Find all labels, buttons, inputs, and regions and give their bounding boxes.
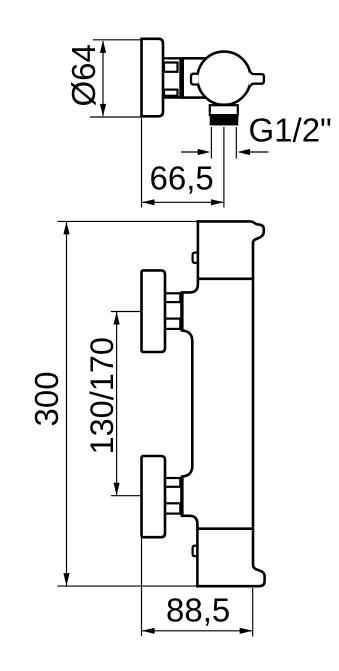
top view: outlet thread G1/2 (black): [210, 115, 239, 125]
dim 300 extension line top: [58, 220, 198, 222]
arrowhead Ø64 bottom: [100, 104, 106, 117]
arrowhead 66,5 right: [211, 199, 224, 205]
arrowhead 130/170 top: [114, 312, 120, 325]
top view: right knob tab: [249, 70, 264, 88]
front view: lower union tab top: [165, 478, 181, 487]
arrowhead 130/170 bottom: [114, 483, 120, 496]
front view: upper union tab top: [165, 293, 181, 302]
dim G1/2 arrow tail left: [181, 151, 200, 153]
dim 88,5 extension line right: [252, 588, 254, 637]
front view: lower union tab bottom: [165, 503, 181, 513]
dim G1/2 extension line right: [235, 127, 237, 159]
arrowhead Ø64 top: [100, 40, 106, 53]
front view: joint line above bottom block: [197, 527, 253, 530]
dim 66,5 line: [142, 201, 223, 203]
svg-text:130/170: 130/170: [84, 337, 120, 454]
front view: lower wall flange: [142, 456, 166, 537]
dim 88,5 line: [142, 630, 252, 632]
arrowhead G1/2 left: [198, 149, 211, 155]
top view: threaded outlet collar (white): [210, 105, 238, 115]
top view: left knob tab: [191, 74, 199, 85]
front view: lower union nut thick edge: [180, 477, 183, 515]
front view: bottom block left nub: [193, 546, 200, 557]
front view: upper wall flange: [142, 270, 166, 352]
arrowhead 88,5 right: [240, 628, 253, 634]
svg-text:300: 300: [28, 371, 65, 426]
dim 130/170 extension line top: [111, 311, 142, 313]
top view: knob circle: [197, 52, 250, 105]
dim 66,5 extension line left (wall plane): [141, 118, 143, 208]
arrowhead 66,5 left: [142, 199, 155, 205]
svg-text:88,5: 88,5: [166, 592, 230, 629]
top view: union nut tab upper: [164, 63, 178, 72]
dim 300 extension line bottom: [58, 585, 243, 587]
dim 66,5 extension line right (outlet centerline): [223, 127, 225, 208]
dim 88,5 extension line left: [141, 538, 143, 637]
arrowhead 300 bottom: [63, 573, 69, 586]
dim Ø64 line: [102, 41, 104, 116]
front view: joint line below top block: [198, 277, 253, 280]
front view: mixer body outline (top block, bar, bottom block): [182, 221, 265, 586]
front view: upper union nut thick edge: [180, 293, 183, 331]
arrowhead G1/2 right: [237, 149, 250, 155]
dim Ø64 extension line bottom: [90, 116, 142, 118]
svg-text:66,5: 66,5: [150, 160, 214, 197]
dim Ø64 extension line top: [93, 39, 142, 41]
dim 130/170 extension line bottom: [111, 495, 142, 497]
svg-text:G1/2": G1/2": [249, 112, 332, 149]
front view: upper union tab bottom: [165, 319, 181, 329]
dim 130/170 line: [116, 312, 118, 495]
svg-text:Ø64: Ø64: [65, 44, 102, 106]
dim 300 line: [66, 222, 68, 586]
top view: wall flange Ø64: [142, 39, 164, 117]
top view: union nut outer profile: [162, 58, 181, 97]
arrowhead 300 top: [63, 222, 69, 235]
arrowhead 88,5 left: [142, 628, 155, 634]
dim G1/2 arrow tail right: [249, 151, 269, 153]
top view: union nut tab lower: [164, 90, 178, 96]
dim G1/2 extension line left: [210, 127, 212, 159]
top view: valve body: [183, 58, 213, 97]
front view: top block left nub: [193, 253, 200, 263]
